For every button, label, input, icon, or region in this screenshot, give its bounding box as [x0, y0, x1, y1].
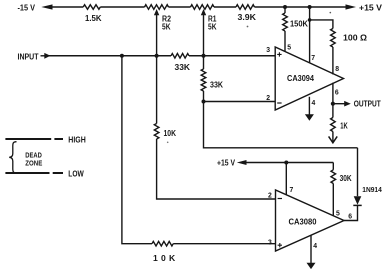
resistor 150K (to pin 5) — [284, 7, 286, 13]
svg-text:3: 3 — [266, 45, 270, 54]
resistor 3.9K — [236, 5, 255, 10]
arrow open chevron below 1K — [329, 136, 338, 142]
wire top rail: R2 to R1 — [169, 6, 191, 8]
wire top rail: R1 to 3.9K — [214, 6, 236, 8]
node T junction 100-ohm branch — [308, 18, 312, 22]
resistor 10K bottom — [152, 241, 173, 246]
svg-text:5: 5 — [287, 42, 291, 51]
svg-text:7: 7 — [311, 53, 315, 62]
wire 100-ohm branch — [310, 20, 333, 29]
svg-text:33K: 33K — [175, 62, 191, 72]
wire pin 2 of U1 — [204, 101, 276, 103]
arrow pin 4 of U2 (filled, down) — [307, 263, 316, 269]
wire diode to pin 6 of U2 — [344, 205, 358, 220]
arrow output (points right) — [333, 103, 345, 105]
node +15V / pin 7 of U2 — [284, 161, 288, 165]
wire top rail: 3.9K to +15V arrow — [255, 6, 349, 8]
svg-text:OUTPUT: OUTPUT — [354, 98, 382, 108]
svg-text:1.5K: 1.5K — [85, 13, 102, 23]
svg-text:6: 6 — [335, 87, 339, 96]
node input/left branch — [120, 54, 124, 58]
wire bottom 10K to pin 3 of U2 — [173, 243, 275, 245]
node output junction — [331, 102, 335, 106]
wire top rail: 1.5K to R2 — [100, 6, 144, 8]
wire pin 6 of U1 to output node — [332, 83, 334, 118]
resistor 33K on input line — [171, 54, 189, 59]
wire pin 7 of U2 — [285, 163, 287, 195]
svg-text:4: 4 — [313, 241, 317, 250]
node junction top rail / 150K — [283, 5, 287, 9]
node input/R1 wiper — [202, 54, 206, 58]
potentiometer R2 5K — [145, 5, 169, 10]
svg-text:150K: 150K — [290, 19, 309, 29]
wire left branch down to bottom 10K — [122, 56, 152, 244]
svg-text:3.9K: 3.9K — [238, 12, 257, 22]
svg-text:6: 6 — [348, 211, 352, 220]
resistor 100 ohm (to pin 8) — [331, 29, 336, 48]
wire R2 wiper branch down (10K) — [156, 56, 158, 124]
resistor 1.5K — [83, 5, 100, 10]
wire pin 4 of U2 down — [310, 235, 312, 264]
svg-text:2: 2 — [268, 190, 272, 199]
svg-text:2: 2 — [266, 93, 270, 102]
svg-text:CA3094: CA3094 — [287, 74, 315, 83]
arrow +15V (points right) — [346, 4, 357, 9]
svg-text:7: 7 — [290, 185, 294, 194]
wire feedback: pin2 node down and right to diode branch — [204, 102, 358, 148]
legend HIGH line — [5, 138, 63, 140]
wire 100-ohm to pin 8 of U1 — [332, 47, 334, 74]
brace dead zone — [9, 142, 16, 173]
op-amp U1 CA3094 — [275, 47, 343, 110]
svg-text:30K: 30K — [340, 173, 353, 183]
wire input line to pin 3 of U1 — [49, 55, 171, 57]
node junction top rail / pin 7 line — [308, 5, 312, 9]
svg-text:10K: 10K — [153, 253, 178, 263]
arrow +15V lower (points left) — [237, 160, 247, 165]
wire pin 4 of U1 down — [308, 97, 310, 116]
svg-text:HIGH: HIGH — [68, 135, 86, 145]
svg-text:3: 3 — [268, 237, 272, 246]
wire 150K to pin 5 of U1 — [284, 31, 286, 52]
arrow pin 4 negative supply (filled, down) — [305, 114, 314, 120]
arrow input (points right) — [41, 55, 46, 57]
resistor 10K vertical — [154, 124, 159, 140]
svg-text:+15 V: +15 V — [217, 158, 235, 168]
legend LOW line — [5, 172, 63, 174]
wire 1K to ground arrow — [332, 132, 334, 142]
svg-text:100 Ω: 100 Ω — [343, 32, 367, 42]
svg-text:1K: 1K — [340, 120, 348, 130]
wire +15V lower rail — [244, 162, 333, 164]
svg-text:ZONE: ZONE — [25, 158, 42, 167]
svg-text:8: 8 — [335, 64, 339, 73]
svg-text:4: 4 — [312, 98, 316, 107]
svg-text:5K: 5K — [162, 21, 171, 31]
node input/R2 wiper — [155, 54, 159, 58]
diode D1 1N914 — [354, 196, 362, 205]
wire pin 7 of U1 to top rail — [309, 7, 311, 63]
svg-text:-15 V: -15 V — [18, 2, 36, 12]
op-amp U2 CA3080 — [276, 190, 345, 251]
svg-text:+15 V: +15 V — [359, 2, 382, 12]
svg-text:LOW: LOW — [68, 169, 84, 179]
svg-text:CA3080: CA3080 — [289, 217, 318, 226]
node pin 2 junction — [202, 100, 206, 104]
svg-text:5K: 5K — [208, 21, 217, 31]
svg-text:10K: 10K — [164, 128, 177, 138]
wire top rail: -15V arrow to 1.5K — [50, 6, 83, 8]
wire 10K to pin 2 of U2 — [157, 139, 276, 199]
speckle dots (artifacts in original) — [330, 12, 332, 14]
resistor 33K vertical (input to pin 2 of U1) — [203, 56, 205, 69]
svg-text:INPUT: INPUT — [18, 52, 40, 62]
arrow -15V (points left) — [41, 4, 52, 9]
resistor 1K — [331, 118, 336, 132]
potentiometer R1 5K — [191, 5, 215, 10]
svg-text:1N914: 1N914 — [362, 185, 382, 194]
svg-text:33K: 33K — [210, 79, 224, 89]
wire diode branch vertical — [357, 148, 359, 196]
svg-text:5: 5 — [336, 209, 340, 218]
resistor 30K (to pin 5 of U2) — [332, 163, 334, 170]
